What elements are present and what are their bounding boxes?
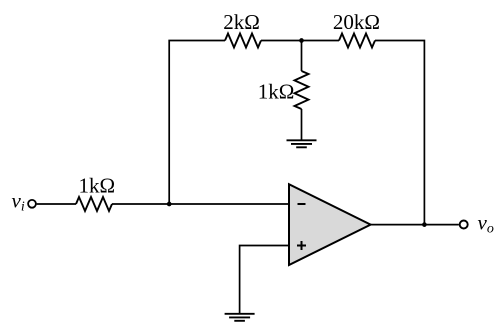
terminal vi open circle bbox=[28, 200, 36, 208]
wire top-right segment and right vertical down to output bbox=[375, 41, 424, 225]
op-amp minus pin marker bbox=[298, 203, 306, 205]
node A junction dot bbox=[299, 38, 304, 43]
wire non-inverting input to ground bbox=[240, 246, 289, 314]
op-amp plus pin marker bbox=[297, 241, 306, 250]
svg-text:20kΩ: 20kΩ bbox=[333, 10, 380, 34]
svg-text:1kΩ: 1kΩ bbox=[78, 174, 115, 198]
wire 1kΩ to op-amp inverting input bbox=[112, 203, 289, 205]
resistor 2kΩ bbox=[225, 34, 261, 48]
terminal vo open circle bbox=[460, 221, 468, 229]
wire vi to 1kΩ input resistor bbox=[37, 203, 76, 205]
wire top middle segment bbox=[261, 40, 339, 42]
wire 1kΩ to ground bbox=[301, 109, 303, 140]
wire op-amp output to vo bbox=[371, 224, 459, 226]
node C junction dot on output bbox=[422, 222, 427, 227]
op-amp U1 bbox=[289, 184, 371, 265]
resistor 1kΩ input bbox=[76, 197, 112, 211]
resistor 1kΩ vertical bbox=[295, 71, 309, 109]
node B junction dot on inverting input bbox=[167, 202, 172, 207]
ground middle bbox=[287, 140, 317, 147]
svg-text:2kΩ: 2kΩ bbox=[223, 10, 260, 34]
wire left vertical and top-left segment bbox=[169, 41, 225, 205]
resistor 20kΩ bbox=[339, 34, 375, 48]
ground bottom bbox=[225, 314, 255, 321]
wire node A down to 1kΩ bbox=[301, 41, 303, 72]
svg-text:1kΩ: 1kΩ bbox=[258, 79, 295, 103]
